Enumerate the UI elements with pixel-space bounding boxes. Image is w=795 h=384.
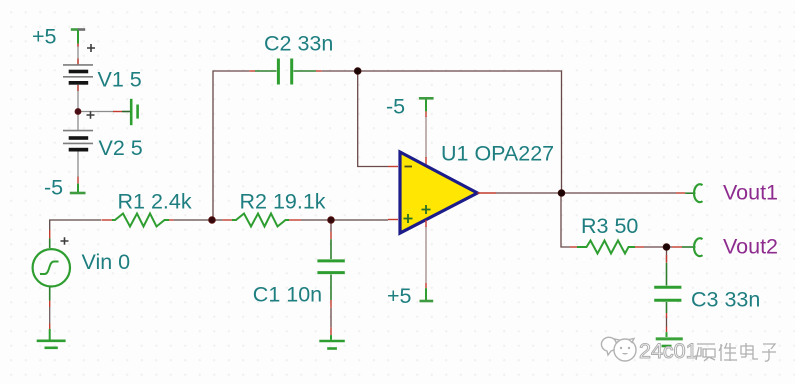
svg-text:+5: +5 bbox=[387, 284, 412, 308]
wire op-amp neg supply bbox=[425, 116, 427, 158]
wire R2 to node B bbox=[301, 219, 388, 221]
label R1 2.4k bbox=[118, 189, 192, 213]
pin ground C3 bbox=[666, 327, 668, 332]
lead Vin bottom bbox=[49, 287, 51, 301]
pin opamp output bbox=[477, 192, 496, 194]
svg-text:Vout1: Vout1 bbox=[723, 181, 778, 205]
jumper battery midpoint bbox=[122, 99, 138, 125]
pin opamp inverting bbox=[388, 166, 398, 168]
pin jumper mid bbox=[113, 111, 122, 113]
wire C1 upper bbox=[330, 220, 332, 232]
svg-text:R1 2.4k: R1 2.4k bbox=[118, 189, 192, 213]
pin C1 top bbox=[330, 232, 332, 240]
pin C2 right bbox=[316, 70, 322, 72]
wire op-amp pos supply bbox=[425, 226, 427, 283]
pin opamp pos supply bottom bbox=[425, 283, 427, 288]
pin R3 left bbox=[570, 246, 577, 248]
svg-text:-5: -5 bbox=[44, 176, 63, 200]
jumper +5 opamp bbox=[420, 288, 434, 301]
capacitor C3 bbox=[654, 263, 681, 313]
label Vin 0 bbox=[82, 250, 131, 274]
label R3 50 bbox=[581, 214, 638, 238]
watermark glyph zi bbox=[762, 344, 776, 361]
wire node mid to jumper bbox=[78, 111, 114, 113]
label C3 33n bbox=[691, 288, 760, 312]
pin opamp noninverting bbox=[388, 219, 398, 221]
label V2 5 bbox=[99, 136, 143, 160]
svg-text:24c01: 24c01 bbox=[639, 339, 698, 363]
label C1 10n bbox=[253, 282, 322, 306]
pin battery V1 top bbox=[77, 59, 79, 65]
pin opamp neg supply top bbox=[425, 111, 427, 117]
watermark logo face dots bbox=[620, 347, 630, 355]
pin Vout1 bbox=[676, 192, 685, 194]
wire battery bottom bbox=[77, 152, 79, 178]
pin R1 left bbox=[102, 219, 113, 221]
wire feedback top bbox=[358, 71, 562, 193]
label -5 bottom-left bbox=[44, 176, 63, 200]
svg-text:Vin 0: Vin 0 bbox=[82, 250, 131, 274]
node D junction R3/C3/Vout2 bbox=[663, 244, 670, 251]
svg-text:V1 5: V1 5 bbox=[98, 68, 142, 92]
terminal Vout1 bbox=[685, 184, 702, 202]
wire C2 to node C bbox=[322, 70, 358, 72]
minus marker opamp input bbox=[405, 166, 413, 168]
label +5 opamp bbox=[387, 284, 412, 308]
pin Vin top bbox=[49, 230, 51, 238]
pin R2 right bbox=[289, 219, 301, 221]
plus marker Vin bbox=[61, 237, 69, 245]
pin C3 top bbox=[666, 255, 668, 263]
wire battery top bbox=[77, 46, 79, 65]
label U1 OPA227 bbox=[441, 142, 554, 166]
resistor R1 bbox=[112, 214, 169, 227]
wire C3 to ground bbox=[666, 316, 668, 327]
pin ground Vin bbox=[49, 323, 51, 329]
battery V2 bbox=[63, 131, 93, 152]
plus marker opamp supply bbox=[422, 205, 431, 214]
wire battery middle bbox=[77, 85, 79, 131]
label +5 top-left bbox=[32, 25, 57, 49]
capacitor C1 bbox=[317, 239, 344, 300]
ground below C1 bbox=[319, 335, 345, 348]
wire inverting input bbox=[358, 71, 388, 167]
ground below C3 bbox=[656, 332, 683, 346]
svg-text:R3 50: R3 50 bbox=[581, 214, 638, 238]
label -5 opamp bbox=[386, 95, 405, 119]
resistor R2 bbox=[232, 214, 289, 227]
svg-text:U1 OPA227: U1 OPA227 bbox=[441, 142, 554, 166]
pin C2 left bbox=[249, 70, 255, 72]
node C junction C2/feedback/inverting bbox=[354, 68, 361, 75]
svg-text:R2 19.1k: R2 19.1k bbox=[240, 189, 326, 213]
resistor R3 bbox=[577, 241, 635, 254]
watermark glyph dian bbox=[741, 343, 758, 359]
node B junction R2/C1/opamp bbox=[328, 217, 335, 224]
capacitor C2 bbox=[255, 59, 316, 85]
jumper -5 bottom-left bbox=[70, 184, 86, 193]
plus marker V1 bbox=[87, 44, 95, 52]
ground below Vin bbox=[37, 329, 66, 348]
wire Vin bottom bbox=[49, 307, 51, 324]
pin Vin bottom bbox=[49, 301, 51, 307]
node A junction R1/R2/feedback bbox=[209, 217, 216, 224]
pin C3 bottom bbox=[666, 313, 668, 318]
wire R3 to node D bbox=[644, 246, 672, 248]
pin opamp neg supply bottom bbox=[425, 157, 427, 165]
wire op-amp output to Vout1 bbox=[496, 192, 676, 194]
plus marker opamp input bbox=[404, 214, 413, 223]
svg-text:-5: -5 bbox=[386, 95, 405, 119]
node battery midpoint junction bbox=[75, 109, 81, 115]
wire Vin top bbox=[50, 220, 101, 230]
terminal Vout2 bbox=[682, 238, 703, 256]
svg-text:C1 10n: C1 10n bbox=[253, 282, 322, 306]
jumper -5 opamp bbox=[419, 98, 434, 111]
pin C1 bottom bbox=[330, 300, 332, 308]
pin R2 left bbox=[222, 219, 232, 221]
wire C1 lower bbox=[330, 308, 332, 328]
wire node D down to C3 bbox=[666, 247, 668, 262]
svg-text:C2 33n: C2 33n bbox=[264, 31, 333, 55]
jumper +5 top-left bbox=[71, 30, 85, 47]
pin R3 right bbox=[635, 246, 644, 248]
label Vout2 bbox=[723, 235, 778, 259]
source Vin bbox=[33, 249, 70, 286]
pin ground C1 bbox=[330, 327, 332, 335]
lead Vin top bbox=[49, 238, 51, 248]
pin Vout2 bbox=[672, 246, 682, 248]
svg-text:Vout2: Vout2 bbox=[723, 235, 778, 259]
op-amp U1 bbox=[400, 152, 477, 233]
svg-text:C3 33n: C3 33n bbox=[691, 288, 760, 312]
watermark text 24c01 bbox=[639, 339, 698, 363]
pin battery V2 bottom bbox=[77, 177, 79, 184]
plus marker V2 bbox=[87, 111, 95, 119]
wire output to R3 branch bbox=[561, 193, 570, 247]
pin battery V1 bottom bbox=[77, 85, 79, 91]
label C2 33n bbox=[264, 31, 333, 55]
pin opamp pos supply top bbox=[425, 220, 427, 227]
wire feedback left vertical bbox=[213, 71, 249, 220]
label Vout1 bbox=[723, 181, 778, 205]
pin R1 right bbox=[169, 219, 174, 221]
watermark glyph ying bbox=[695, 344, 715, 361]
wire R1 to R2 bbox=[174, 219, 223, 221]
watermark glyph jian bbox=[719, 343, 737, 361]
node output junction bbox=[558, 190, 565, 197]
svg-text:+5: +5 bbox=[32, 25, 57, 49]
label V1 5 bbox=[98, 68, 142, 92]
watermark logo bbox=[601, 337, 636, 361]
svg-text:V2 5: V2 5 bbox=[99, 136, 143, 160]
battery V1 bbox=[63, 65, 93, 85]
label R2 19.1k bbox=[240, 189, 326, 213]
